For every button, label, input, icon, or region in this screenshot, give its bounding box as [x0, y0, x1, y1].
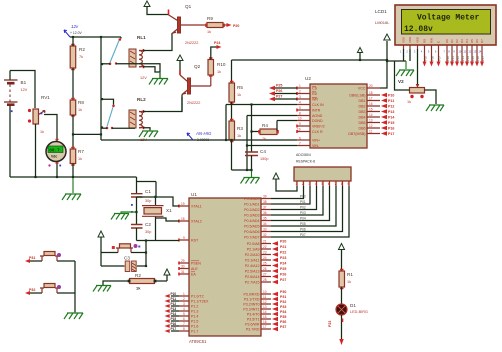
wire divider tap: [73, 133, 101, 135]
svg-text:P25: P25: [280, 267, 286, 271]
svg-text:P12: P12: [171, 302, 177, 306]
svg-text:INTR: INTR: [312, 109, 321, 113]
svg-text:28: 28: [263, 278, 267, 282]
wire R2 column: [72, 37, 74, 100]
wire V2 right to ground: [425, 90, 437, 104]
terminals P25 P26 P27: [269, 84, 297, 102]
svg-text:XTAL2: XTAL2: [191, 220, 202, 224]
svg-text:Q2: Q2: [194, 64, 201, 69]
svg-text:P1.3: P1.3: [191, 310, 198, 314]
microcontroller U1 AT89C51: [189, 192, 261, 344]
svg-text:29: 29: [181, 259, 185, 263]
svg-text:00.7: 00.7: [49, 149, 60, 154]
svg-text:10: 10: [298, 117, 302, 121]
svg-text:6: 6: [299, 137, 301, 141]
svg-text:P1.2: P1.2: [191, 305, 198, 309]
svg-text:26: 26: [263, 267, 267, 271]
svg-text:9: 9: [299, 122, 301, 126]
svg-text:R5: R5: [237, 85, 243, 90]
svg-text:P04: P04: [300, 217, 306, 221]
svg-text:P13: P13: [388, 110, 394, 114]
svg-text:RL1: RL1: [137, 35, 146, 40]
relay RL1: [129, 35, 147, 80]
svg-text:P17: P17: [481, 56, 485, 61]
svg-text:35: 35: [263, 217, 267, 221]
svg-text:WR: WR: [312, 98, 318, 102]
svg-text:P1.1/T2EX: P1.1/T2EX: [191, 300, 209, 304]
svg-text:2: 2: [406, 50, 408, 54]
node column x101: [100, 37, 102, 140]
ground xtal: [111, 212, 137, 220]
svg-text:P01: P01: [300, 200, 306, 204]
svg-text:AT89C51: AT89C51: [189, 339, 207, 344]
wire rst rail: [137, 240, 180, 242]
svg-text:11: 11: [463, 50, 466, 54]
capacitor C3: [101, 256, 146, 272]
top rail: [70, 36, 121, 38]
svg-text:D2: D2: [455, 39, 459, 43]
svg-text:7: 7: [183, 322, 185, 326]
svg-text:27: 27: [263, 273, 267, 277]
adc U2 ADC0804: [296, 76, 367, 157]
transistor Q1: [168, 4, 207, 45]
resistor R4: [252, 123, 279, 141]
svg-text:P0.6/AD6: P0.6/AD6: [244, 230, 259, 234]
svg-text:38: 38: [263, 200, 267, 204]
svg-text:PSEN: PSEN: [191, 262, 201, 266]
svg-text:P0.2/AD2: P0.2/AD2: [244, 208, 259, 212]
wire R7 bottom: [72, 164, 74, 178]
svg-text:P21: P21: [280, 245, 286, 249]
svg-text:P13: P13: [461, 56, 465, 61]
power arrow RST right: [155, 269, 170, 281]
svg-text:P2.3/A11: P2.3/A11: [245, 259, 260, 263]
svg-text:P0.3/AD3: P0.3/AD3: [244, 214, 259, 218]
U2 right pin names: [348, 87, 366, 137]
svg-text:P11: P11: [171, 297, 177, 301]
svg-text:39: 39: [263, 195, 267, 199]
wire XTAL2: [156, 218, 180, 221]
analog rail AN-HIG: [101, 139, 297, 141]
wire VDD feed horizontal: [387, 49, 410, 61]
wire R8 to R7: [72, 115, 74, 149]
svg-text:P27: P27: [280, 278, 286, 282]
push button P32: [25, 284, 75, 296]
svg-text:P0.5/AD5: P0.5/AD5: [244, 225, 259, 229]
svg-text:18: 18: [181, 217, 185, 221]
svg-text:P37: P37: [280, 325, 286, 329]
svg-text:RV1: RV1: [41, 95, 50, 100]
U2 left pin names: [312, 86, 325, 148]
svg-text:P26: P26: [280, 273, 286, 277]
svg-text:12: 12: [468, 50, 471, 54]
svg-text:P2.5/A13: P2.5/A13: [245, 270, 260, 274]
wire AGND long: [247, 115, 297, 117]
terminals P20-P27 on U1 P2: [272, 240, 286, 285]
svg-text:RST: RST: [191, 239, 199, 243]
svg-text:8: 8: [183, 327, 185, 331]
terminal P20: [223, 23, 239, 28]
svg-text:16: 16: [369, 102, 373, 106]
crystal X1: [142, 197, 172, 241]
U1 left pin stubs: [179, 205, 189, 332]
svg-text:P0.7/AD7: P0.7/AD7: [244, 236, 259, 240]
U2 left pin numbers: [297, 84, 302, 146]
svg-text:P27: P27: [276, 95, 282, 99]
svg-text:7k: 7k: [79, 55, 83, 59]
svg-text:U1: U1: [191, 192, 197, 197]
svg-text:D3: D3: [460, 39, 464, 43]
resistor R1: [339, 270, 353, 289]
svg-text:17: 17: [263, 325, 267, 329]
svg-text:P3.7/RD: P3.7/RD: [246, 328, 260, 332]
wire R4 right to DGND row: [277, 121, 297, 131]
svg-text:P14: P14: [171, 312, 177, 316]
svg-text:12V: 12V: [21, 88, 28, 92]
svg-text:CLK IN: CLK IN: [312, 103, 324, 107]
svg-text:7: 7: [299, 142, 301, 146]
wire CLKIN column x251: [251, 105, 253, 153]
svg-text:7: 7: [335, 182, 337, 186]
resistor R2: [128, 273, 157, 291]
svg-text:C4: C4: [260, 149, 266, 154]
svg-text:P36: P36: [431, 56, 435, 61]
svg-text:VDD: VDD: [408, 36, 412, 43]
svg-text:P16: P16: [476, 56, 480, 61]
svg-text:DGND: DGND: [312, 119, 323, 123]
svg-text:150p: 150p: [260, 157, 268, 161]
svg-text:P26: P26: [276, 89, 282, 93]
svg-text:R2: R2: [79, 47, 85, 52]
push button P31: [25, 252, 75, 264]
bottom rail: [10, 176, 137, 178]
svg-text:2: 2: [302, 182, 304, 186]
svg-text:P14: P14: [466, 56, 470, 61]
svg-text:9: 9: [183, 236, 185, 240]
svg-text:Vdc: Vdc: [51, 155, 57, 159]
svg-text:P37: P37: [438, 56, 442, 61]
svg-text:R3: R3: [237, 126, 243, 131]
svg-text:1: 1: [296, 182, 298, 186]
gnd rail y170: [232, 169, 252, 171]
svg-text:+ 3.02003: + 3.02003: [194, 138, 209, 142]
svg-text:R10: R10: [217, 62, 226, 67]
small arrow x360: [357, 48, 362, 61]
svg-text:P14: P14: [388, 116, 394, 120]
svg-text:DB7(MSB): DB7(MSB): [348, 132, 365, 136]
svg-text:+ 12.0V: + 12.0V: [70, 31, 83, 35]
svg-text:P3.6/WR: P3.6/WR: [245, 323, 260, 327]
U1 right pin names: [243, 197, 260, 332]
wire Q2 emitter to RL2: [181, 95, 183, 112]
U1 right pin stubs: [261, 199, 271, 330]
svg-text:9: 9: [348, 182, 350, 186]
terminals P10-P17 on U1 P1: [165, 292, 180, 333]
wire x226: [225, 105, 227, 141]
wire R3 bottom: [231, 140, 233, 170]
wire RV1 wiper tap: [44, 115, 57, 142]
svg-text:1: 1: [299, 84, 301, 88]
terminals P30-P37 on U1 P3: [272, 290, 286, 331]
svg-text:24: 24: [263, 256, 267, 260]
svg-text:P0.4/AD4: P0.4/AD4: [244, 219, 259, 223]
wire XTAL1: [137, 197, 180, 206]
svg-text:DB1: DB1: [359, 99, 366, 103]
wire C1-C2 column: [136, 197, 138, 225]
svg-text:D1: D1: [350, 303, 356, 308]
svg-text:37: 37: [263, 206, 267, 210]
svg-text:U2: U2: [305, 76, 311, 81]
wire C2 bottom to RST row: [136, 228, 138, 241]
resistor R3: [229, 120, 243, 142]
button reset: [101, 244, 146, 253]
LCD pin numbers: [400, 50, 482, 54]
wire P0 bus fan: [271, 186, 349, 237]
svg-text:P32: P32: [280, 300, 286, 304]
svg-text:P2.4/A12: P2.4/A12: [245, 264, 260, 268]
resistor R7: [70, 148, 84, 166]
svg-text:P05: P05: [300, 222, 306, 226]
svg-text:D6: D6: [475, 39, 479, 43]
svg-text:VEE: VEE: [416, 37, 420, 43]
svg-text:P16: P16: [388, 127, 394, 131]
ground R2: [93, 286, 111, 292]
svg-text:VIN-: VIN-: [312, 144, 320, 148]
svg-text:R4: R4: [262, 123, 268, 128]
svg-text:1: 1: [400, 50, 402, 54]
svg-text:1k: 1k: [217, 70, 221, 74]
svg-text:6: 6: [435, 50, 437, 54]
svg-text:AN-HIG: AN-HIG: [195, 131, 212, 136]
wire battery top rail: [10, 71, 35, 109]
svg-text:20: 20: [369, 84, 373, 88]
wire buttons common: [74, 261, 76, 312]
resistor R8: [70, 99, 84, 117]
LCD pin names vertical: [402, 36, 485, 43]
resistor pack RP1: [294, 160, 351, 187]
wire AGND column x247: [246, 116, 248, 171]
svg-text:P16: P16: [171, 322, 177, 326]
svg-text:P2.0/A8: P2.0/A8: [247, 242, 260, 246]
svg-text:P24: P24: [214, 41, 220, 45]
svg-text:R8: R8: [78, 100, 84, 105]
svg-text:P3.2/INT0: P3.2/INT0: [243, 303, 259, 307]
LCD signal terminals down: [423, 49, 486, 67]
svg-text:LM016L: LM016L: [375, 20, 390, 25]
svg-text:RL2: RL2: [137, 97, 146, 102]
svg-text:14: 14: [478, 50, 481, 54]
svg-text:1k: 1k: [40, 130, 44, 134]
svg-text:P10: P10: [446, 56, 450, 61]
svg-text:5: 5: [322, 182, 324, 186]
svg-text:23: 23: [263, 251, 267, 255]
svg-text:P0.1/AD1: P0.1/AD1: [244, 203, 259, 207]
svg-text:1k: 1k: [237, 93, 241, 97]
svg-text:P11: P11: [388, 99, 394, 103]
svg-text:4: 4: [299, 101, 301, 105]
svg-text:P1.7: P1.7: [191, 330, 198, 334]
svg-text:15: 15: [369, 108, 373, 112]
svg-text:12V: 12V: [140, 76, 147, 80]
svg-text:P1.6: P1.6: [191, 325, 198, 329]
svg-text:P2.6/A14: P2.6/A14: [245, 275, 260, 279]
svg-text:P31: P31: [29, 256, 35, 260]
svg-text:C1: C1: [145, 189, 151, 194]
ground buttons: [64, 312, 83, 319]
svg-text:22: 22: [263, 245, 267, 249]
svg-text:13: 13: [369, 119, 373, 123]
U1 left pin names: [191, 205, 209, 334]
svg-text:P36: P36: [280, 320, 286, 324]
svg-text:RESPACK-8: RESPACK-8: [296, 160, 315, 164]
LCD LM016L body: [395, 5, 496, 45]
ground V2 right: [426, 105, 444, 111]
svg-text:R9: R9: [207, 16, 213, 21]
svg-text:VSS: VSS: [402, 37, 406, 43]
svg-text:VREF/2: VREF/2: [312, 125, 325, 129]
svg-text:P25: P25: [276, 84, 282, 88]
svg-text:P03: P03: [300, 211, 306, 215]
svg-text:11: 11: [369, 130, 373, 134]
svg-text:3: 3: [183, 302, 185, 306]
svg-text:P23: P23: [280, 256, 286, 260]
wire VIN-: [247, 146, 297, 171]
svg-text:1k: 1k: [347, 280, 351, 284]
voltmeter: [46, 140, 66, 178]
svg-text:1k: 1k: [407, 100, 411, 104]
svg-text:14: 14: [263, 310, 267, 314]
pot V2: [398, 49, 425, 104]
svg-text:ADC0804: ADC0804: [296, 153, 311, 157]
svg-text:5: 5: [428, 50, 430, 54]
svg-text:4: 4: [315, 182, 317, 186]
ground C4: [241, 170, 260, 184]
svg-text:CLK R: CLK R: [312, 130, 323, 134]
svg-text:30p: 30p: [145, 199, 151, 203]
svg-text:P3.4/T0: P3.4/T0: [247, 313, 260, 317]
svg-text:4: 4: [421, 50, 423, 54]
svg-text:P35: P35: [424, 56, 428, 61]
svg-text:P20: P20: [233, 24, 239, 28]
svg-text:RS: RS: [423, 39, 427, 43]
svg-text:18: 18: [369, 91, 373, 95]
svg-text:15: 15: [263, 315, 267, 319]
U2 VCC wire and power arrow: [380, 34, 390, 88]
wire rst node column: [145, 241, 147, 267]
svg-text:P31: P31: [280, 295, 286, 299]
svg-text:AGND: AGND: [312, 114, 323, 118]
svg-text:8: 8: [341, 182, 343, 186]
svg-text:D4: D4: [465, 39, 469, 43]
svg-text:P12: P12: [388, 105, 394, 109]
svg-text:P33: P33: [280, 305, 286, 309]
ground RL2: [139, 130, 158, 137]
svg-text:P15: P15: [471, 56, 475, 61]
svg-text:ALE: ALE: [191, 267, 198, 271]
power arrow RST left: [98, 231, 104, 266]
capacitor C4: [245, 149, 268, 170]
svg-text:19: 19: [181, 202, 185, 206]
svg-text:3: 3: [414, 50, 416, 54]
probe 12v: [64, 24, 83, 37]
svg-text:1: 1: [183, 292, 185, 296]
junction dots: [72, 36, 74, 38]
svg-text:P13: P13: [171, 307, 177, 311]
U2 right pin stubs: [367, 88, 380, 134]
svg-text:P12: P12: [456, 56, 460, 61]
svg-text:2: 2: [299, 90, 301, 94]
svg-text:P35: P35: [280, 315, 286, 319]
svg-text:P2.1/A9: P2.1/A9: [247, 248, 260, 252]
svg-text:1k: 1k: [136, 286, 141, 291]
svg-text:P0.0/AD0: P0.0/AD0: [244, 197, 259, 201]
svg-text:C3: C3: [124, 256, 130, 261]
svg-text:RW: RW: [430, 38, 434, 43]
relay RL2: [129, 97, 147, 142]
svg-text:P02: P02: [300, 206, 306, 210]
RL2 switch: [101, 99, 135, 129]
wire V2 left: [395, 61, 410, 90]
U2 right pin numbers: [369, 84, 373, 134]
capacitor C2: [131, 222, 151, 234]
wire R5-R3: [231, 102, 233, 121]
svg-text:36: 36: [263, 211, 267, 215]
svg-text:D0: D0: [445, 39, 449, 43]
wire R2 left to ground: [103, 281, 130, 285]
svg-text:P34: P34: [280, 310, 286, 314]
svg-text:VIN+: VIN+: [312, 139, 320, 143]
LCD screen: [402, 10, 491, 35]
svg-text:31: 31: [181, 270, 185, 274]
power arrow RP1: [273, 173, 297, 191]
svg-text:33: 33: [263, 228, 267, 232]
svg-text:14: 14: [369, 113, 373, 117]
svg-text:1k: 1k: [78, 108, 82, 112]
svg-text:30: 30: [181, 265, 185, 269]
svg-text:LCD1: LCD1: [375, 9, 387, 14]
svg-text:B1: B1: [21, 80, 27, 85]
svg-text:DB4: DB4: [359, 116, 366, 120]
ground LCD VSS: [396, 61, 414, 76]
svg-text:Q1: Q1: [185, 4, 192, 9]
wire R1 to D1: [341, 287, 343, 304]
svg-text:C2: C2: [145, 222, 151, 227]
svg-text:11: 11: [263, 295, 267, 299]
svg-text:P3.1/TXD: P3.1/TXD: [244, 298, 260, 302]
svg-text:12v: 12v: [71, 24, 79, 29]
terminal P24: [211, 41, 222, 60]
svg-text:19: 19: [297, 128, 301, 132]
svg-text:12: 12: [369, 124, 373, 128]
svg-text:3: 3: [309, 182, 311, 186]
terminals P10-P17 on DB pins: [381, 93, 394, 136]
svg-text:RD: RD: [312, 92, 318, 96]
svg-text:P00: P00: [300, 195, 306, 199]
ground RL1: [149, 72, 168, 85]
svg-text:4: 4: [183, 307, 185, 311]
probe AN-HIG: [187, 131, 212, 142]
svg-text:5: 5: [183, 312, 185, 316]
svg-text:P1.5: P1.5: [191, 320, 198, 324]
ground below rail: [62, 177, 81, 200]
svg-text:10: 10: [458, 50, 461, 54]
svg-text:P10: P10: [171, 292, 177, 296]
RL1 switch: [101, 37, 160, 78]
svg-text:13: 13: [263, 305, 267, 309]
svg-text:1k: 1k: [262, 137, 266, 141]
svg-text:P3.0/RXD: P3.0/RXD: [244, 293, 260, 297]
svg-text:10: 10: [263, 290, 267, 294]
